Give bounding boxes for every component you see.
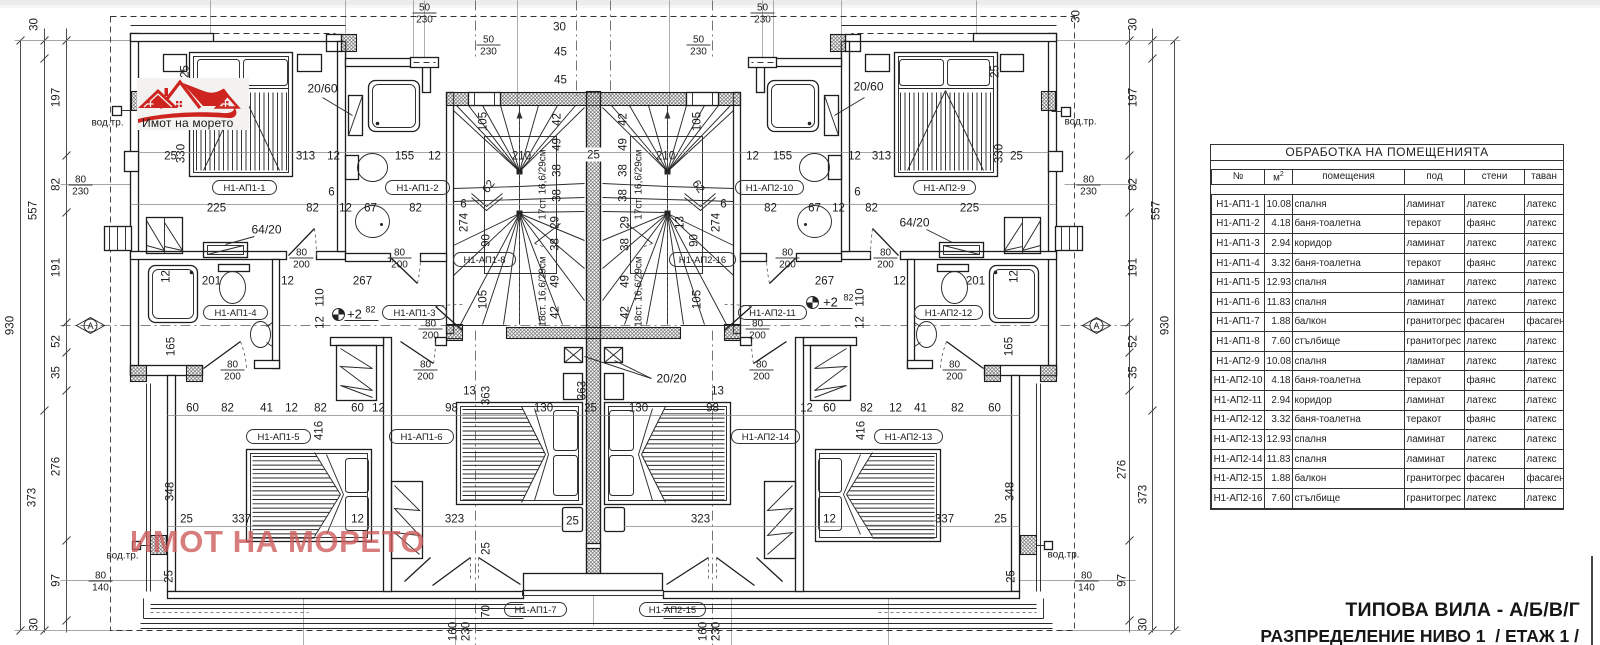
svg-text:330: 330 (994, 144, 1006, 163)
svg-text:210: 210 (512, 151, 531, 163)
svg-text:12: 12 (800, 403, 813, 415)
svg-text:Н1-АП2-12: Н1-АП2-12 (925, 308, 972, 319)
svg-text:200: 200 (779, 260, 796, 271)
svg-text:6: 6 (328, 187, 334, 199)
bathroom top window (411, 58, 439, 68)
under-stair x-box (565, 348, 583, 363)
svg-text:Н1-АП1-6: Н1-АП1-6 (400, 432, 442, 443)
shower ap1-4 (149, 266, 198, 323)
svg-text:105: 105 (478, 112, 490, 131)
svg-text:348: 348 (165, 482, 177, 501)
svg-text:225: 225 (960, 203, 979, 215)
finish schedule table (1210, 144, 1564, 510)
svg-text:12: 12 (161, 270, 173, 283)
balcony edge lines left (146, 384, 148, 592)
svg-text:313: 313 (296, 151, 315, 163)
svg-text:вод.тр.: вод.тр. (1064, 117, 1096, 128)
vod.tr. markers (113, 107, 122, 116)
svg-text:64/20: 64/20 (899, 216, 929, 230)
svg-text:140: 140 (1078, 583, 1095, 594)
svg-text:105: 105 (692, 112, 704, 131)
dimension chain lines right (1129, 29, 1131, 633)
svg-text:70: 70 (481, 605, 493, 618)
svg-text:35: 35 (51, 366, 63, 379)
bottom construction lines (303, 599, 305, 645)
svg-text:105: 105 (478, 290, 490, 309)
svg-text:35: 35 (1128, 366, 1140, 379)
svg-text:110: 110 (855, 288, 867, 306)
dimension chain lines left (20, 41, 22, 631)
svg-text:38: 38 (618, 164, 630, 177)
svg-text:20/60: 20/60 (307, 82, 337, 96)
svg-text:12: 12 (823, 514, 836, 526)
sink ap1-2 (356, 206, 390, 238)
svg-text:82: 82 (764, 203, 777, 215)
outer left wall (131, 34, 139, 376)
door ap1-6 (401, 342, 434, 364)
svg-text:Н1-АП2-15: Н1-АП2-15 (649, 605, 696, 616)
svg-text:вод.тр.: вод.тр. (1047, 550, 1079, 561)
svg-text:17ст. 16,6/29см: 17ст. 16,6/29см (538, 149, 549, 220)
svg-text:191: 191 (51, 258, 63, 277)
svg-text:30: 30 (29, 18, 41, 31)
svg-text:80: 80 (227, 360, 239, 371)
svg-text:160: 160 (698, 622, 710, 641)
svg-text:80: 80 (782, 248, 794, 259)
svg-text:25: 25 (481, 542, 493, 555)
top dim labels (413, 3, 437, 26)
svg-text:140: 140 (92, 583, 109, 594)
svg-text:25: 25 (587, 150, 600, 162)
sink ap1-4 (251, 322, 271, 348)
svg-text:276: 276 (1117, 460, 1129, 479)
svg-text:80: 80 (880, 248, 892, 259)
window bench 64/20 (204, 243, 248, 258)
80/200 door labels (290, 248, 314, 271)
svg-text:60: 60 (823, 403, 836, 415)
svg-text:80: 80 (1081, 571, 1093, 582)
svg-text:30: 30 (1138, 618, 1150, 631)
svg-text:12: 12 (428, 151, 441, 163)
svg-text:82: 82 (860, 403, 873, 415)
svg-text:274: 274 (711, 212, 723, 232)
svg-text:12: 12 (315, 316, 327, 329)
svg-text:+2: +2 (823, 295, 838, 310)
svg-text:12: 12 (1009, 270, 1021, 283)
svg-text:80: 80 (420, 360, 432, 371)
svg-text:165: 165 (1004, 337, 1016, 356)
landing slab hatched (507, 328, 681, 339)
svg-text:38: 38 (550, 238, 562, 251)
balcony slab (524, 574, 663, 591)
svg-text:930: 930 (1160, 316, 1172, 335)
svg-text:97: 97 (1117, 574, 1129, 587)
svg-text:38: 38 (552, 189, 564, 202)
svg-text:200: 200 (753, 372, 770, 383)
svg-text:230: 230 (461, 622, 473, 641)
svg-text:200: 200 (422, 331, 439, 342)
svg-text:82: 82 (951, 403, 964, 415)
corridor top wall (346, 254, 391, 262)
svg-text:50: 50 (483, 35, 495, 46)
stair arrow chevron (472, 194, 503, 211)
svg-text:80: 80 (296, 248, 308, 259)
shower ap1-2 (369, 81, 420, 132)
svg-text:165: 165 (166, 337, 178, 356)
svg-text:230: 230 (690, 47, 707, 58)
svg-text:12: 12 (889, 403, 902, 415)
svg-text:191: 191 (1128, 258, 1140, 277)
wall lower-left step (131, 366, 203, 376)
door corridor-stair (391, 258, 418, 284)
svg-text:20/60: 20/60 (853, 80, 883, 94)
svg-text:50: 50 (419, 3, 431, 14)
svg-text:98: 98 (445, 403, 458, 415)
svg-text:105: 105 (692, 290, 704, 309)
svg-text:416: 416 (314, 421, 326, 440)
door stair bottom (436, 307, 463, 331)
svg-text:12: 12 (285, 403, 298, 415)
svg-text:82: 82 (409, 203, 422, 215)
svg-text:330: 330 (176, 144, 188, 163)
svg-text:38: 38 (552, 164, 564, 177)
balcony door leaves (433, 558, 471, 586)
bathroom1 top wall (346, 59, 431, 67)
svg-text:200: 200 (391, 260, 408, 271)
pilaster hatch top-left wall (132, 92, 146, 111)
svg-text:337: 337 (935, 514, 954, 526)
svg-text:50: 50 (693, 35, 705, 46)
svg-text:201: 201 (966, 276, 985, 288)
L wall near sink (255, 361, 280, 369)
svg-text:230: 230 (1080, 187, 1097, 198)
svg-text:A: A (87, 321, 93, 331)
svg-text:49: 49 (618, 138, 630, 151)
stair bottom pilaster (447, 325, 463, 341)
svg-text:12: 12 (855, 316, 867, 329)
svg-text:82: 82 (306, 203, 319, 215)
svg-text:41: 41 (914, 403, 927, 415)
svg-text:210: 210 (656, 151, 675, 163)
svg-text:13: 13 (675, 216, 687, 229)
logo roofs graphic (138, 83, 237, 123)
svg-text:25: 25 (584, 403, 597, 415)
svg-text:200: 200 (293, 260, 310, 271)
top hatched band stair block (447, 93, 741, 106)
dim line row y516 (168, 526, 564, 528)
svg-text:82: 82 (865, 203, 878, 215)
bed ap1-5 (247, 450, 372, 542)
svg-text:557: 557 (28, 201, 40, 220)
svg-text:82: 82 (366, 305, 376, 315)
svg-text:38: 38 (618, 189, 630, 202)
svg-text:201: 201 (202, 276, 221, 288)
svg-text:98: 98 (706, 403, 719, 415)
svg-text:155: 155 (395, 151, 414, 163)
corridor bottom wall (331, 338, 384, 346)
nightstands (164, 55, 187, 72)
bathroom1 left wall (338, 42, 346, 252)
svg-text:200: 200 (946, 372, 963, 383)
svg-text:42: 42 (550, 306, 562, 319)
level marks +2.82 (333, 305, 379, 322)
top construction lines (210, 1, 212, 34)
svg-text:45: 45 (554, 47, 567, 59)
svg-text:80: 80 (394, 248, 406, 259)
svg-text:12: 12 (746, 151, 759, 163)
svg-text:29: 29 (620, 216, 632, 229)
lower-left vertical wall (168, 376, 176, 592)
svg-text:Н1-АП2-11: Н1-АП2-11 (749, 308, 796, 319)
terrace edge lines (141, 623, 1053, 625)
svg-text:25: 25 (164, 570, 176, 583)
svg-text:200: 200 (417, 372, 434, 383)
bed ap1-1 (190, 53, 293, 177)
svg-text:97: 97 (51, 574, 63, 587)
bath door leaf (349, 96, 363, 136)
svg-text:276: 276 (51, 457, 63, 476)
svg-text:82: 82 (51, 178, 63, 191)
scan shading top edge (0, 0, 1600, 5)
svg-text:Н1-АП2-13: Н1-АП2-13 (885, 432, 932, 443)
bedroom1 bottom wall (131, 252, 287, 260)
svg-text:42: 42 (552, 113, 564, 126)
central shaft column (587, 92, 601, 574)
svg-text:Н1-АП1-5: Н1-АП1-5 (257, 432, 299, 443)
svg-text:+2: +2 (347, 307, 362, 322)
svg-text:200: 200 (877, 260, 894, 271)
svg-text:6: 6 (720, 199, 726, 211)
svg-text:Н1-АП1-1: Н1-АП1-1 (223, 183, 265, 194)
svg-text:18ст. 16,6/29см: 18ст. 16,6/29см (538, 256, 549, 327)
room divider ap1-5/ap1-6 (384, 338, 392, 592)
svg-text:930: 930 (5, 316, 17, 335)
svg-text:363: 363 (481, 386, 493, 405)
dim line row y405 (168, 415, 1020, 417)
titles (1345, 599, 1580, 622)
door ap1-4 (204, 342, 241, 369)
watermark (130, 524, 425, 560)
svg-text:110: 110 (315, 288, 327, 306)
svg-text:25: 25 (566, 516, 579, 528)
svg-text:267: 267 (815, 276, 834, 288)
svg-text:12: 12 (339, 203, 352, 215)
svg-text:Н1-АП2-10: Н1-АП2-10 (746, 183, 793, 194)
room labels (213, 181, 277, 195)
top wall bedroom 1 (131, 34, 214, 42)
wardrobe corridor (337, 346, 377, 401)
svg-text:230: 230 (480, 47, 497, 58)
svg-text:30: 30 (553, 22, 566, 34)
svg-text:25: 25 (990, 65, 1002, 78)
svg-text:29: 29 (550, 216, 562, 229)
svg-text:Н1-АП1-8: Н1-АП1-8 (463, 255, 505, 266)
svg-text:12: 12 (848, 151, 861, 163)
svg-text:52: 52 (1128, 335, 1140, 348)
svg-text:A: A (1093, 321, 1099, 331)
svg-text:313: 313 (872, 151, 891, 163)
wardrobe ap1-1 (147, 218, 183, 254)
svg-text:12: 12 (893, 276, 906, 288)
svg-text:60: 60 (186, 403, 199, 415)
svg-text:82: 82 (1128, 178, 1140, 191)
stair inner door leaf (535, 224, 561, 244)
left wall pilaster (125, 152, 139, 172)
stair inner opening outline (485, 137, 557, 274)
dim line row y152 (139, 152, 1049, 154)
svg-text:60: 60 (351, 403, 364, 415)
svg-text:Н1-АП2-16: Н1-АП2-16 (679, 255, 726, 266)
svg-text:Н1-АП2-9: Н1-АП2-9 (923, 183, 965, 194)
svg-text:80: 80 (949, 360, 961, 371)
wardrobe ap1-6 (392, 482, 423, 559)
svg-text:274: 274 (459, 212, 471, 232)
svg-text:Н1-АП1-2: Н1-АП1-2 (396, 183, 438, 194)
svg-text:6: 6 (460, 199, 466, 211)
svg-text:197: 197 (1128, 88, 1140, 107)
svg-text:20/20: 20/20 (656, 372, 686, 386)
svg-text:130: 130 (534, 403, 553, 415)
svg-text:18ст. 16,6/29см: 18ст. 16,6/29см (634, 256, 645, 327)
axis A centerline (61, 325, 1131, 327)
svg-text:267: 267 (353, 276, 372, 288)
property boundary dashed (111, 17, 1075, 631)
svg-text:50: 50 (757, 3, 769, 14)
svg-text:30: 30 (1128, 18, 1140, 31)
svg-text:25: 25 (180, 65, 192, 78)
svg-text:323: 323 (445, 514, 464, 526)
svg-text:49: 49 (552, 138, 564, 151)
svg-text:Н1-АП1-4: Н1-АП1-4 (214, 308, 256, 319)
svg-text:155: 155 (773, 151, 792, 163)
svg-text:13: 13 (463, 386, 476, 398)
svg-text:416: 416 (856, 421, 868, 440)
svg-text:вод.тр.: вод.тр. (91, 118, 123, 129)
svg-text:67: 67 (364, 203, 377, 215)
dim line row y204 (131, 204, 1057, 206)
svg-text:49: 49 (620, 275, 632, 288)
svg-text:82: 82 (844, 293, 854, 303)
svg-text:225: 225 (207, 203, 226, 215)
svg-text:80: 80 (95, 571, 107, 582)
svg-text:64/20: 64/20 (251, 223, 281, 237)
svg-text:17ст. 16,6/29см: 17ст. 16,6/29см (634, 149, 645, 220)
stair left wall (447, 93, 454, 334)
under-stair box (564, 374, 583, 400)
bed ap1-6 (457, 403, 583, 505)
toilet ap1-2 (346, 156, 359, 180)
svg-text:Н1-АП2-14: Н1-АП2-14 (742, 432, 789, 443)
svg-text:348: 348 (1005, 482, 1017, 501)
svg-text:200: 200 (224, 372, 241, 383)
svg-text:12: 12 (372, 403, 385, 415)
svg-text:Н1-АП1-7: Н1-АП1-7 (514, 605, 556, 616)
svg-text:130: 130 (629, 403, 648, 415)
svg-text:38: 38 (620, 238, 632, 251)
wall bath4/corridor (273, 260, 280, 369)
svg-text:30: 30 (29, 618, 41, 631)
stair treads lower fan (454, 214, 520, 246)
svg-text:80: 80 (75, 175, 87, 186)
svg-text:363: 363 (577, 381, 589, 400)
left wall window block (105, 227, 132, 251)
door bedroom1 (289, 229, 315, 256)
svg-text:12: 12 (832, 203, 845, 215)
svg-text:6: 6 (854, 187, 860, 199)
svg-text:323: 323 (691, 514, 710, 526)
top parapet line (131, 25, 346, 27)
svg-text:12: 12 (327, 151, 340, 163)
svg-text:80: 80 (425, 319, 437, 330)
svg-text:13: 13 (711, 386, 724, 398)
25 box (563, 508, 583, 532)
bottom wall (168, 592, 524, 599)
svg-text:Н1-АП1-3: Н1-АП1-3 (393, 308, 435, 319)
svg-text:90: 90 (689, 234, 701, 247)
svg-text:90: 90 (481, 234, 493, 247)
svg-text:42: 42 (620, 306, 632, 319)
svg-text:557: 557 (1151, 201, 1163, 220)
column 25 label gap (584, 148, 604, 162)
svg-text:49: 49 (550, 275, 562, 288)
top pilaster 20/60 (327, 35, 342, 52)
svg-text:25: 25 (1010, 151, 1023, 163)
svg-text:80: 80 (1083, 175, 1095, 186)
svg-text:373: 373 (27, 488, 39, 507)
svg-text:25: 25 (1006, 570, 1018, 583)
svg-text:230: 230 (711, 622, 723, 641)
svg-text:197: 197 (51, 88, 63, 107)
svg-text:52: 52 (51, 335, 63, 348)
svg-text:45: 45 (554, 75, 567, 87)
svg-text:82: 82 (314, 403, 327, 415)
svg-text:25: 25 (994, 514, 1007, 526)
stair walk line (519, 113, 521, 319)
svg-text:230: 230 (72, 187, 89, 198)
svg-text:41: 41 (260, 403, 273, 415)
svg-text:160: 160 (448, 622, 460, 641)
toilet ap1-4 (219, 265, 250, 272)
svg-text:42: 42 (618, 113, 630, 126)
svg-text:82: 82 (221, 403, 234, 415)
svg-text:60: 60 (988, 403, 1001, 415)
svg-text:200: 200 (749, 331, 766, 342)
svg-text:80: 80 (752, 319, 764, 330)
svg-text:373: 373 (1138, 485, 1150, 504)
svg-text:80: 80 (756, 360, 768, 371)
svg-text:12: 12 (281, 276, 294, 288)
svg-text:67: 67 (808, 203, 821, 215)
logo Imot na moreto (137, 78, 249, 130)
stair treads upper fan (457, 106, 520, 172)
